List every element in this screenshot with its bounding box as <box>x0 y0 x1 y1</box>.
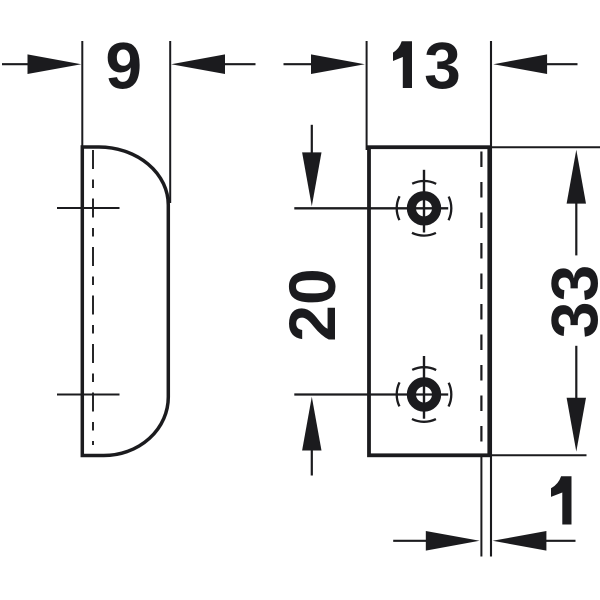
dim 1 right extension line <box>490 457 492 557</box>
dim 9 right arrow <box>171 54 255 74</box>
hole H2 vertical centerline <box>423 356 425 419</box>
right view outline <box>369 147 489 455</box>
dim 20 lower arrow <box>302 397 321 476</box>
hole H1 ring <box>411 196 436 221</box>
dim 1 left extension line <box>480 457 482 557</box>
right view bend line (dashed) <box>480 152 482 456</box>
hole H1 horizontal centerline <box>294 207 448 209</box>
svg-text:9: 9 <box>105 29 142 103</box>
dim 13 right arrow <box>493 54 577 74</box>
dim 13 left extension line <box>366 41 368 150</box>
hole H2 thread circle (broken) <box>397 367 452 422</box>
dim 33 top extension line <box>489 146 600 148</box>
dim 33 bottom extension line <box>489 454 587 456</box>
svg-text:3: 3 <box>424 29 461 103</box>
svg-text:20: 20 <box>275 268 349 341</box>
left view upper hole centerline tick <box>57 207 120 209</box>
left view vertical centerline (chain) <box>92 150 94 445</box>
dim 13 text <box>393 29 461 103</box>
dim 33 upper arrow <box>567 150 586 256</box>
dim 9 left extension line <box>81 41 83 149</box>
hole H2 ring <box>411 382 436 407</box>
svg-text:33: 33 <box>538 265 600 338</box>
left view outline <box>82 147 168 456</box>
dim 1 left arrow <box>393 531 479 551</box>
hole H1 vertical centerline <box>423 170 425 233</box>
dim 13 right extension line <box>490 41 492 557</box>
dim 20 upper arrow <box>302 125 321 206</box>
dim 9 left arrow <box>2 54 81 74</box>
dim 9 right extension line <box>169 41 171 203</box>
dim 13 left arrow <box>284 54 365 74</box>
hole H1 thread circle (broken) <box>397 181 452 236</box>
dim 1 text <box>551 476 572 524</box>
dim 33 lower arrow <box>567 346 586 452</box>
hole H2 horizontal centerline <box>294 393 448 395</box>
dim 1 right arrow <box>493 531 576 551</box>
left view lower hole centerline tick <box>57 394 120 396</box>
